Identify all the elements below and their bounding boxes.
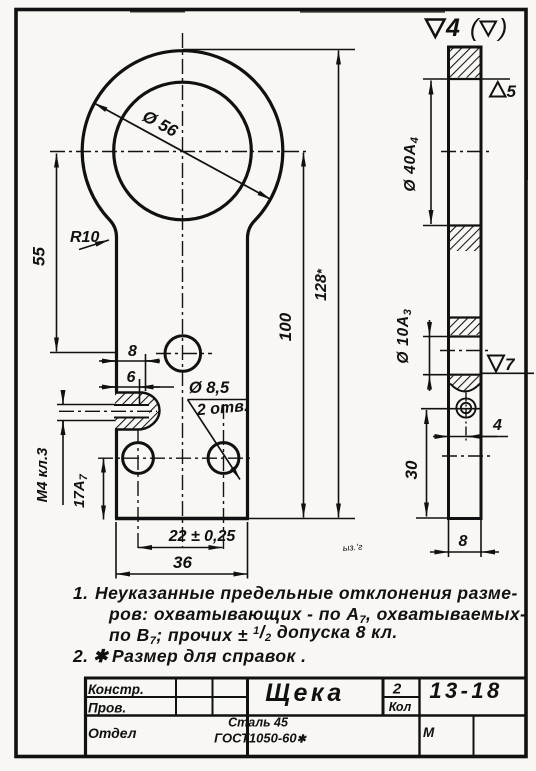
svg-text:4: 4 — [492, 417, 502, 434]
svg-text:Кол: Кол — [389, 700, 412, 714]
svg-text:R10: R10 — [70, 229, 99, 246]
svg-text:Пров.: Пров. — [88, 701, 126, 716]
svg-text:Щека: Щека — [265, 679, 345, 707]
svg-text:Размер для справок .: Размер для справок . — [112, 646, 306, 666]
svg-text:Ø 10А3: Ø 10А3 — [395, 308, 414, 363]
svg-text:2.: 2. — [72, 646, 89, 666]
svg-text:4: 4 — [445, 14, 460, 42]
svg-text:Ø 40А4: Ø 40А4 — [402, 136, 421, 191]
svg-text:36: 36 — [173, 553, 192, 572]
svg-text:8: 8 — [459, 533, 468, 550]
svg-text:8: 8 — [128, 343, 137, 360]
svg-text:Отдел: Отдел — [88, 725, 137, 741]
svg-text:13-18: 13-18 — [429, 678, 502, 703]
svg-text:2: 2 — [392, 681, 402, 698]
svg-text:✱: ✱ — [93, 646, 110, 666]
svg-text:30: 30 — [402, 460, 421, 479]
svg-text:Ø 8,5: Ø 8,5 — [189, 379, 230, 397]
svg-text:7: 7 — [505, 355, 516, 374]
svg-text:55: 55 — [30, 247, 49, 266]
svg-text:100: 100 — [276, 312, 295, 341]
svg-text:Констр.: Констр. — [88, 682, 144, 697]
svg-text:М4 кл.3: М4 кл.3 — [34, 447, 51, 502]
svg-text:5: 5 — [507, 82, 517, 101]
svg-text:Неуказанные предельные отклоне: Неуказанные предельные отклонения разме- — [95, 583, 518, 603]
svg-text:ГОСТ1050-60✱: ГОСТ1050-60✱ — [214, 731, 307, 746]
svg-text:ыз.’г: ыз.’г — [342, 542, 363, 553]
svg-text:6: 6 — [127, 369, 136, 386]
svg-text:Сталь 45: Сталь 45 — [228, 716, 289, 730]
svg-text:1.: 1. — [73, 583, 89, 603]
svg-text:22 ± 0,25: 22 ± 0,25 — [168, 528, 237, 545]
svg-text:128*: 128* — [313, 268, 330, 301]
svg-text:М: М — [423, 725, 435, 740]
